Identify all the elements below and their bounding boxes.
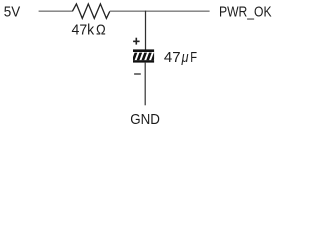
svg-text:47: 47 (164, 49, 181, 66)
capacitor value label 47 µF (164, 49, 197, 66)
wire resistor to PWR_OK (110, 10, 210, 12)
wire capacitor - to GND (144, 63, 146, 106)
resistor value label 47k Ω (72, 22, 106, 39)
wire junction to capacitor + (145, 11, 147, 50)
wire 5V to resistor (39, 10, 73, 12)
svg-text:μ: μ (181, 49, 189, 66)
svg-text:5V: 5V (4, 3, 20, 20)
svg-text:GND: GND (130, 111, 160, 128)
svg-text:Ω: Ω (96, 22, 106, 39)
svg-text:PWR_OK: PWR_OK (219, 3, 272, 20)
capacitor 47uF hatched bottom plate (133, 52, 156, 63)
plus polarity mark (133, 38, 140, 45)
svg-text:F: F (190, 49, 197, 66)
resistor 47k (72, 4, 109, 19)
minus polarity mark (134, 73, 141, 74)
capacitor 47uF polarized, top plate (133, 49, 154, 52)
svg-text:47k: 47k (72, 22, 95, 39)
